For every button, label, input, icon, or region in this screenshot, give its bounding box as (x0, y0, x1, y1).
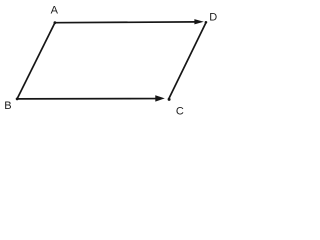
wire side A to B (17, 23, 55, 99)
node B (16, 98, 19, 101)
node C (168, 98, 171, 101)
label A (51, 5, 59, 17)
arrowhead at D (194, 19, 203, 24)
label D (209, 12, 217, 24)
label C (176, 105, 184, 117)
svg-text:D: D (209, 12, 217, 24)
svg-text:B: B (4, 100, 11, 112)
label B (4, 100, 11, 112)
svg-text:C: C (176, 105, 184, 117)
wire ray B to C (17, 98, 157, 100)
node A (54, 21, 57, 24)
arrowhead at C (155, 95, 165, 101)
svg-text:A: A (51, 5, 59, 17)
wire side D to C (169, 22, 207, 100)
wire ray A to D (55, 21, 196, 24)
node D (205, 21, 208, 24)
